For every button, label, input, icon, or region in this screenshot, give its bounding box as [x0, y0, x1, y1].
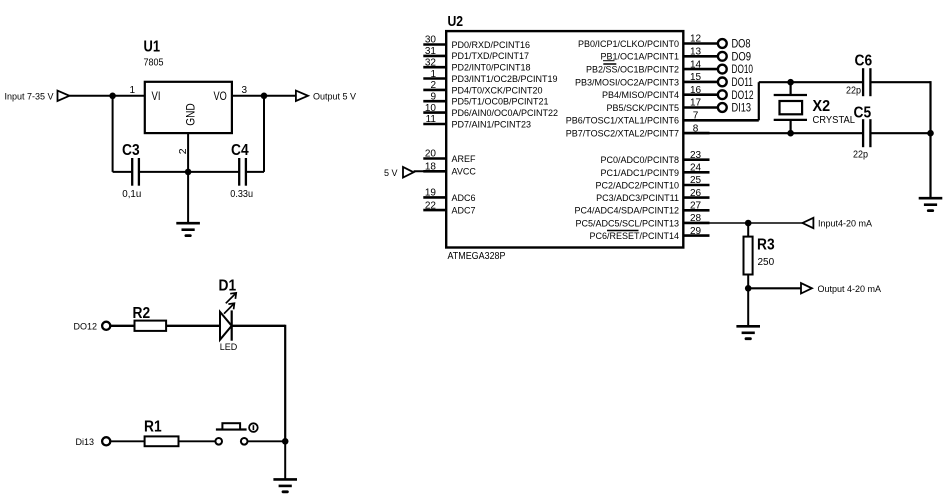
wire left vertical to C3: [112, 96, 114, 172]
capacitor C5: [862, 119, 864, 147]
regulator U1 body: [145, 82, 232, 133]
svg-text:AREF: AREF: [452, 154, 477, 164]
svg-text:19: 19: [425, 188, 437, 199]
svg-text:2: 2: [430, 80, 436, 91]
svg-text:Input 7-35 V: Input 7-35 V: [5, 91, 54, 101]
wire C6 to right vertical: [870, 81, 930, 83]
svg-text:PB6/TOSC1/XTAL1/PCINT6: PB6/TOSC1/XTAL1/PCINT6: [566, 116, 679, 126]
svg-text:VI: VI: [152, 91, 161, 103]
svg-text:GND: GND: [184, 103, 198, 126]
svg-text:X2: X2: [813, 98, 831, 115]
ground (crystal section): [919, 197, 943, 200]
svg-text:D1: D1: [219, 277, 237, 294]
svg-text:25: 25: [690, 175, 702, 186]
D1 LED arrows: [224, 293, 236, 314]
svg-text:PB5/SCK/PCINT5: PB5/SCK/PCINT5: [606, 103, 679, 113]
U2 pin 20 (AREF): [423, 157, 446, 160]
U2 pin 22 (ADC7): [423, 209, 446, 212]
svg-text:22p: 22p: [853, 149, 868, 160]
push button S1 contact right: [241, 438, 248, 445]
svg-text:22: 22: [425, 200, 437, 211]
capacitor C4: [238, 158, 240, 186]
underline artifact under PB1 (pin 13 label): [603, 60, 615, 62]
U2 pin 27 (PC4): [683, 209, 709, 212]
svg-text:3: 3: [242, 85, 248, 96]
U2 pin 32 (PD2): [423, 66, 446, 69]
svg-text:R2: R2: [133, 305, 151, 322]
svg-text:0.33u: 0.33u: [230, 189, 253, 200]
svg-text:1: 1: [430, 69, 436, 80]
resistor R2: [135, 321, 167, 331]
svg-text:PC6/RESET/PCINT14: PC6/RESET/PCINT14: [589, 231, 679, 241]
svg-text:11: 11: [426, 114, 437, 125]
svg-text:Output 5 V: Output 5 V: [313, 91, 356, 101]
capacitor C6: [862, 68, 864, 96]
overline for SS (pin 14 label): [603, 63, 616, 65]
push button S1 actuator: [222, 423, 240, 429]
svg-text:PC0/ADC0/PCINT8: PC0/ADC0/PCINT8: [600, 155, 679, 165]
wire node down to ground: [187, 172, 189, 223]
svg-text:ADC7: ADC7: [452, 206, 476, 216]
svg-text:PB0/ICP1/CLKO/PCINT0: PB0/ICP1/CLKO/PCINT0: [578, 39, 679, 49]
node: XTAL2 crystal junction: [787, 130, 794, 137]
svg-text:26: 26: [690, 188, 702, 199]
MCU U2 body ATMEGA328P: [446, 31, 683, 247]
wire R1 to switch: [179, 440, 216, 442]
node: XTAL1 crystal junction: [787, 79, 794, 86]
terminal DO10: [718, 65, 727, 74]
svg-text:20: 20: [425, 149, 437, 160]
crystal X2 top plate: [774, 94, 807, 96]
wire R2 to LED: [166, 325, 220, 327]
svg-text:PD7/AIN1/PCINT23: PD7/AIN1/PCINT23: [452, 119, 532, 129]
wire input to U1 pin1: [69, 95, 144, 97]
LED D1 cathode bar: [231, 310, 233, 340]
svg-text:12: 12: [690, 34, 702, 45]
U2 pin 7 (PB6): [683, 119, 709, 122]
wire C4 to right vertical: [246, 171, 264, 173]
U2 pin 8 (PB7): [683, 132, 709, 135]
wire crystal top lead: [789, 82, 791, 95]
node: right vertical junction: [927, 130, 934, 137]
terminal DI13: [718, 103, 727, 112]
svg-text:C4: C4: [231, 142, 249, 159]
capacitor C3: [131, 158, 133, 186]
wire corner down to button row: [284, 325, 286, 442]
svg-text:PD4/T0/XCK/PCINT20: PD4/T0/XCK/PCINT20: [452, 85, 543, 95]
svg-text:PD0/RXD/PCINT16: PD0/RXD/PCINT16: [452, 40, 531, 50]
wire XTAL1 top line: [759, 81, 863, 83]
U2 pin 12 (PB0): [683, 42, 718, 45]
U2 pin 14 (PB2): [683, 68, 718, 71]
svg-text:29: 29: [690, 226, 702, 237]
wire pin8 XTAL2 line: [683, 132, 863, 134]
wire riser up: [758, 82, 760, 120]
svg-text:ADC6: ADC6: [452, 193, 476, 203]
wire junction down to ground: [284, 441, 286, 479]
U2 pin 25 (PC2): [683, 184, 709, 187]
svg-text:0,1u: 0,1u: [122, 189, 141, 200]
svg-text:24: 24: [690, 163, 702, 174]
push button S1 contact left: [215, 438, 222, 445]
svg-text:32: 32: [425, 57, 437, 68]
wire crystal bottom lead: [789, 120, 791, 133]
svg-text:PD2/INT0/PCINT18: PD2/INT0/PCINT18: [452, 63, 531, 73]
wire center node to C4: [188, 171, 239, 173]
U2 pin 15 (PB3): [683, 81, 718, 84]
U2 pin 31 (PD1): [423, 55, 446, 58]
svg-text:PC1/ADC1/PCINT9: PC1/ADC1/PCINT9: [600, 168, 679, 178]
svg-text:U1: U1: [144, 39, 161, 56]
push button S1 bar: [216, 428, 247, 430]
svg-text:PD5/T1/OC0B/PCINT21: PD5/T1/OC0B/PCINT21: [452, 97, 549, 107]
U2 pin 17 (PB5): [683, 106, 718, 109]
svg-text:23: 23: [690, 150, 702, 161]
svg-text:C3: C3: [122, 142, 140, 159]
wire pin7 to riser: [710, 119, 759, 122]
svg-text:PB7/TOSC2/XTAL2/PCINT7: PB7/TOSC2/XTAL2/PCINT7: [566, 129, 679, 139]
wire DO12 to R2: [110, 325, 134, 327]
svg-text:17: 17: [690, 98, 702, 109]
svg-text:Di13: Di13: [76, 437, 95, 447]
ground (button section): [273, 478, 297, 481]
resistor R3: [744, 237, 753, 275]
svg-text:PC2/ADC2/PCINT10: PC2/ADC2/PCINT10: [595, 180, 679, 190]
terminal DO11: [718, 78, 727, 87]
U2 pin 28 (PC5): [683, 222, 709, 225]
node: input junction: [109, 93, 116, 100]
svg-text:R1: R1: [144, 419, 162, 436]
svg-text:DI13: DI13: [732, 103, 752, 115]
svg-text:PB3/MOSI/OC2A/PCINT3: PB3/MOSI/OC2A/PCINT3: [575, 77, 679, 87]
wire C5 to right vertical: [870, 132, 930, 134]
svg-text:7: 7: [693, 111, 699, 122]
U2 pin 18 (AVCC): [423, 170, 446, 173]
U2 pin 24 (PC1): [683, 171, 709, 174]
svg-text:PD6/AIN0/OC0A/PCINT22: PD6/AIN0/OC0A/PCINT22: [452, 108, 559, 118]
wire 5V to AVCC: [414, 170, 447, 172]
U1 pin2 stub: [187, 133, 189, 172]
crystal X2 body: [780, 101, 803, 114]
svg-text:30: 30: [425, 35, 437, 46]
ground (R3 section): [736, 325, 760, 328]
svg-text:250: 250: [758, 257, 775, 268]
svg-text:PB2/SS/OC1B/PCINT2: PB2/SS/OC1B/PCINT2: [586, 65, 679, 75]
svg-text:13: 13: [690, 47, 702, 58]
svg-text:PC3/ADC3/PCINT11: PC3/ADC3/PCINT11: [596, 193, 679, 203]
ground (U1 section): [176, 222, 200, 225]
node: R3 top junction: [745, 220, 752, 227]
node: ground junction: [185, 169, 192, 176]
U2 pin 26 (PC3): [683, 196, 709, 199]
U2 pin 19 (ADC6): [423, 196, 446, 199]
wire right vertical to C4: [263, 96, 265, 172]
U2 pin 11 (PD7): [423, 123, 446, 126]
svg-text:16: 16: [690, 85, 702, 96]
svg-text:PD1/TXD/PCINT17: PD1/TXD/PCINT17: [452, 51, 530, 61]
U2 pin 16 (PB4): [683, 93, 718, 96]
U2 pin 1 (PD3): [423, 77, 446, 80]
svg-text:DO9: DO9: [732, 51, 752, 63]
push button S1 indicator circle: [249, 423, 258, 432]
svg-text:C6: C6: [855, 52, 873, 69]
U2 pin 2 (PD4): [423, 89, 446, 92]
wire junction to R3: [747, 223, 749, 237]
terminal DO8: [718, 39, 727, 48]
svg-text:AVCC: AVCC: [452, 167, 477, 177]
wire C3 to center node: [139, 171, 188, 173]
overline for RESET (pin 29 label): [607, 230, 639, 232]
svg-text:LED: LED: [220, 342, 238, 352]
U2 pin 9 (PD5): [423, 100, 446, 103]
terminal DO12: [718, 90, 727, 99]
U2 pin 13 (PB1): [683, 55, 718, 58]
svg-text:VO: VO: [214, 91, 227, 103]
wire pin28 to input arrow: [710, 222, 803, 224]
wire R3 to output junction: [747, 275, 749, 289]
svg-text:2: 2: [177, 148, 189, 154]
svg-text:10: 10: [425, 103, 437, 114]
svg-text:28: 28: [690, 213, 702, 224]
LED D1 triangle: [220, 312, 232, 340]
svg-text:PC4/ADC4/SDA/PCINT12: PC4/ADC4/SDA/PCINT12: [574, 206, 679, 216]
svg-text:Output 4-20 mA: Output 4-20 mA: [818, 284, 882, 294]
svg-text:15: 15: [690, 72, 702, 83]
output terminal arrow Output 4-20 mA: [801, 283, 812, 293]
svg-text:Input4-20 mA: Input4-20 mA: [818, 219, 872, 229]
svg-text:27: 27: [690, 201, 702, 212]
terminal DO9: [718, 52, 727, 61]
resistor R1: [145, 436, 179, 446]
svg-text:DO12: DO12: [732, 90, 754, 102]
svg-text:DO10: DO10: [732, 64, 754, 76]
output terminal arrow Output 5 V: [296, 91, 308, 101]
svg-text:1: 1: [130, 85, 136, 96]
wire right vertical down: [929, 81, 931, 198]
svg-text:22p: 22p: [846, 85, 861, 96]
svg-text:R3: R3: [757, 236, 775, 253]
svg-text:C5: C5: [854, 104, 872, 121]
svg-text:CRYSTAL: CRYSTAL: [813, 115, 856, 126]
svg-text:DO8: DO8: [732, 39, 751, 51]
U2 pin 23 (PC0): [683, 158, 709, 161]
crystal X2 bottom plate: [774, 119, 807, 121]
svg-text:PC5/ADC5/SCL/PCINT13: PC5/ADC5/SCL/PCINT13: [575, 218, 679, 228]
U2 pin 10 (PD6): [423, 111, 446, 114]
svg-text:9: 9: [430, 92, 436, 103]
svg-text:DO12: DO12: [74, 321, 98, 331]
wire U1 pin3 to output: [232, 95, 296, 97]
svg-text:14: 14: [690, 59, 702, 70]
node: output junction: [745, 285, 752, 292]
svg-text:U2: U2: [448, 14, 464, 30]
wire Di13 to R1: [110, 440, 144, 442]
svg-text:ATMEGA328P: ATMEGA328P: [448, 251, 506, 262]
wire C3 left: [113, 171, 133, 173]
svg-text:PD3/INT1/OC2B/PCINT19: PD3/INT1/OC2B/PCINT19: [452, 74, 558, 84]
svg-text:PB4/MISO/PCINT4: PB4/MISO/PCINT4: [602, 90, 679, 100]
wire switch to junction: [248, 440, 286, 442]
wire output junction to ground: [747, 288, 749, 326]
node: output junction: [261, 93, 268, 100]
svg-text:7805: 7805: [144, 58, 164, 69]
input terminal arrow Input4-20 mA: [803, 218, 814, 228]
wire LED to corner: [232, 325, 286, 327]
svg-text:31: 31: [425, 46, 437, 57]
wire to output arrow: [748, 287, 801, 289]
svg-text:DO11: DO11: [732, 77, 754, 89]
U2 pin 30 (PD0): [423, 43, 446, 46]
U2 pin 29 (PC6): [683, 234, 709, 237]
svg-text:5 V: 5 V: [384, 168, 398, 178]
node: button junction: [282, 438, 289, 445]
